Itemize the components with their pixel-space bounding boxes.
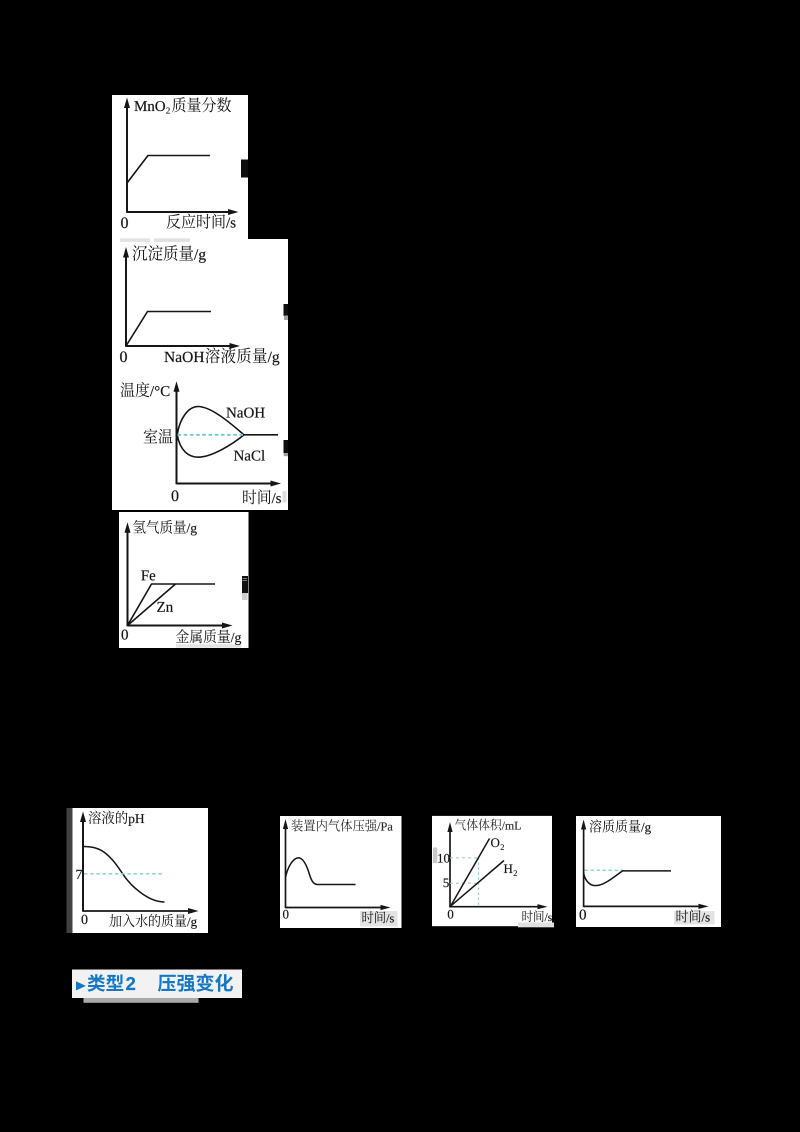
chart 4 x-axis [128,625,224,627]
chart D x-axis [584,905,703,907]
chart 2 y-axis [125,256,127,347]
chart 1 origin 0 [121,217,128,228]
chart 3 origin 0 [172,490,179,501]
chart C title 气体体积/mL [455,819,466,831]
chart C O2 line [451,839,490,907]
chart 4 bottom smudge [176,644,242,647]
chart 3 panel: temperature vs time [112,372,288,510]
chart 3 label 室温 [144,429,158,444]
chart 4 Zn curve [128,584,176,626]
chart 2 x-axis [126,345,230,347]
chart C y-axis [449,830,451,907]
chart C label 5 [444,878,449,887]
chart A origin 0 [82,915,88,924]
chart 4 Fe label [141,570,148,580]
chart 2 panel: precipitate vs NaOH [112,239,288,372]
chart 3 NaCl lower curve [177,435,244,457]
ghost smudge segment 2 [154,238,190,242]
chart B panel: gas pressure vs time [280,816,402,928]
chart 3 x-label 时间/s [243,490,256,505]
chart 4 origin 0 [122,630,128,640]
chart C origin 0 [448,910,454,919]
chart 3 y-axis [176,390,178,484]
chart C panel: gas volume vs time [432,816,552,926]
chart 1 cutoff text blob [241,160,248,178]
chart C label 10 [438,854,443,863]
chart C H2 label [504,864,513,873]
chart C cyan dashed 5-line [450,882,479,884]
chart C cyan dashed vertical [478,858,480,907]
chart 4 y-axis [127,531,129,626]
chart 3 NaOH upper curve [177,407,244,435]
chart D curve [584,871,671,886]
chart C x-axis [450,906,542,908]
heading text 类型 2 压强变化 [88,974,106,991]
chart 4 panel: gas mass vs metal mass [119,512,249,648]
heading blue triangle [76,981,86,990]
chart C small gray square [433,848,437,864]
chart B origin 0 [283,910,289,919]
chart 1 x-label 反应时间/s [167,214,181,229]
chart B x-label 时间/s [363,911,374,923]
chart 3 label NaOH [226,408,236,418]
heading shadow strip [84,998,199,1003]
chart 3 cutoff text blob [284,440,289,453]
heading panel [72,970,242,999]
chart 2 x-label NaOH溶液质量/g [164,352,174,362]
chart 4 title 氢气质量/g [133,520,145,534]
chart B curve [286,858,356,885]
chart 1 panel: MnO2 mass fraction vs time [112,95,248,239]
chart A cyan dashed line [84,873,163,875]
chart 1 title MnO2质量分数 [134,101,146,111]
chart A panel: pH vs water mass [73,808,209,933]
chart 3 cyan dashed room-temp line [178,434,244,436]
chart 2 ghost smudge [120,238,150,242]
chart D title 溶质质量/g [590,819,602,832]
chart A y-axis [82,819,84,912]
chart A x-axis [83,910,189,912]
chart D origin 0 [580,910,586,920]
chart B x-axis [286,907,386,909]
chart C O2 label [491,838,499,847]
chart D gray label box [674,911,715,925]
chart A dark gray side strip [67,808,73,933]
chart 3 flat tail [244,434,278,436]
chart C cyan dashed 10-line [450,857,479,859]
chart A x-label 加入水的质量/g [109,914,121,927]
chart 3 title 温度/°C [121,382,135,397]
chart D x-label 时间/s [677,910,689,923]
chart C H2 line [451,861,505,907]
chart 3 label NaCl [234,451,244,461]
chart 3 x-axis [177,483,276,485]
chart 4 Fe curve [128,584,216,626]
chart A title 溶液的pH [89,811,101,825]
chart 1 y-axis [126,105,128,213]
chart B gray label box [360,911,398,927]
chart 2 title 沉淀质量/g [133,245,148,260]
chart B title 装置内气体压强/Pa [292,819,303,831]
chart 1 curve [127,156,210,184]
chart A label 7 [76,870,82,879]
chart 2 origin 0 [120,351,127,362]
chart 2 cutoff text blob [284,304,289,316]
chart 4 x-label 金属质量/g [176,629,189,643]
chart C gray strip under label [518,923,554,928]
chart D y-axis [583,828,585,907]
chart D panel: solute mass vs time [576,816,721,927]
chart B y-axis [285,827,287,908]
chart A S curve [84,847,165,903]
chart 2 curve [126,312,211,347]
chart 1 x-axis [127,211,228,213]
chart 4 Zn label [157,602,165,612]
chart C x-label 时间/s [522,911,532,922]
chart D cyan dashed line [585,869,624,871]
chart 4 cutoff text blob [242,576,248,593]
